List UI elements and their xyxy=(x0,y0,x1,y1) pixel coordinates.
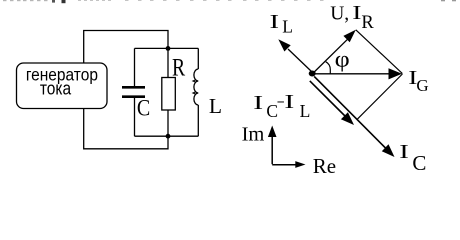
vector U, I_R xyxy=(313,39,347,73)
label C xyxy=(137,95,150,121)
node bottom junction xyxy=(166,134,171,139)
resistor R body xyxy=(162,78,176,111)
label I_L xyxy=(270,11,280,33)
svg-text:L: L xyxy=(282,16,293,36)
wire bottom: box bottom to bottom rail xyxy=(84,109,168,149)
wire top rail xyxy=(135,47,199,49)
svg-text:I: I xyxy=(270,11,280,33)
capacitor C leads xyxy=(134,48,136,136)
svg-text:I: I xyxy=(253,90,263,113)
svg-text:U: U xyxy=(330,4,344,25)
svg-text:I: I xyxy=(399,141,409,163)
vector I_C minus I_L (double line) xyxy=(310,81,345,116)
svg-text:φ: φ xyxy=(335,47,350,72)
label I_G xyxy=(408,66,417,89)
svg-text:C: C xyxy=(137,95,150,121)
capacitor C plates xyxy=(122,87,145,96)
wire bottom rail xyxy=(135,135,199,137)
svg-text:L: L xyxy=(300,101,311,121)
label I_C - I_L xyxy=(253,90,263,113)
label phi xyxy=(335,47,350,72)
generator box (генератор тока) xyxy=(17,63,108,109)
svg-text:R: R xyxy=(172,53,185,81)
node origin xyxy=(309,71,316,77)
svg-text:I: I xyxy=(352,1,361,24)
angle phi arc xyxy=(326,62,331,74)
svg-text:тока: тока xyxy=(40,77,72,99)
axis Im xyxy=(271,136,273,164)
axis Re xyxy=(272,164,296,166)
svg-text:Re: Re xyxy=(313,154,336,176)
label I_C xyxy=(399,141,409,163)
vector I_C xyxy=(314,76,385,148)
svg-text:,: , xyxy=(344,4,349,25)
svg-text:L: L xyxy=(209,94,222,118)
svg-text:C: C xyxy=(412,151,426,175)
svg-text:I: I xyxy=(284,90,294,113)
svg-text:Im: Im xyxy=(242,124,265,146)
inductor L xyxy=(194,48,198,136)
vector I_L xyxy=(288,49,312,72)
svg-text:G: G xyxy=(416,76,428,95)
vector I_G xyxy=(315,73,390,75)
svg-text:R: R xyxy=(361,13,374,33)
clipped text line from paragraph above xyxy=(3,0,456,3)
label R xyxy=(172,53,185,81)
resistor R leads xyxy=(167,50,169,134)
wire parallelogram side B-D xyxy=(357,74,402,119)
wire parallelogram side A-B xyxy=(356,30,403,74)
node top junction xyxy=(166,46,171,51)
wire top: box top to top rail xyxy=(84,31,168,64)
